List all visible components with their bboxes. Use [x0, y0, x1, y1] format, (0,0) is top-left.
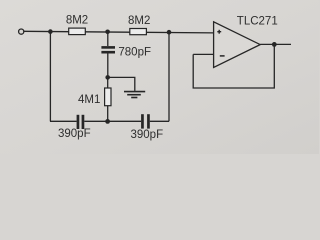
node C (junction after R2): [167, 30, 172, 35]
wire: node C down right side: [168, 32, 170, 121]
wire: feedback loop (output to inverting input): [193, 44, 274, 88]
wire: output: [260, 43, 291, 45]
pin - (inverting input marker): [220, 55, 225, 57]
svg-text:8M2: 8M2: [128, 15, 150, 27]
node A (input junction): [48, 29, 53, 34]
svg-text:8M2: 8M2: [66, 14, 88, 26]
wire: bottom rail left segment: [50, 120, 77, 122]
op-amp U1 TLC271: [214, 22, 261, 68]
node E (junction below C1): [105, 75, 110, 80]
resistor 8M2 R2: [130, 29, 147, 35]
input terminal: [19, 29, 24, 34]
wire: bottom rail middle segment: [84, 120, 141, 122]
wire: node E down to resistor R3: [107, 77, 109, 88]
node D (bottom junction): [105, 119, 110, 124]
svg-text:390pF: 390pF: [58, 128, 91, 140]
capacitor 780pF C1: [101, 46, 115, 53]
wire: bottom rail right segment: [150, 120, 169, 122]
wire: node A down left side: [49, 32, 51, 122]
node F (output junction): [272, 42, 277, 47]
svg-text:TLC271: TLC271: [237, 15, 278, 27]
ground: [124, 92, 145, 98]
wire: input to op-amp non-inverting input: [24, 31, 214, 33]
capacitor 390pF C2: [77, 115, 85, 129]
svg-text:4M1: 4M1: [78, 94, 100, 106]
wire: node E to ground stem: [108, 77, 135, 91]
wire: inverting input stub: [193, 53, 213, 55]
resistor 4M1 R3: [105, 88, 111, 106]
node B (junction between R1 and R2): [105, 30, 110, 35]
pin + (non-inverting input marker): [217, 30, 221, 34]
resistor 8M2 R1: [69, 28, 86, 34]
wire: capacitor C1 to node E: [107, 54, 109, 78]
wire: resistor R3 to node D: [107, 106, 109, 122]
wire: node B down to capacitor C1: [107, 32, 109, 46]
svg-text:780pF: 780pF: [118, 47, 151, 59]
capacitor 390pF C3: [141, 114, 150, 128]
svg-text:390pF: 390pF: [131, 129, 164, 141]
